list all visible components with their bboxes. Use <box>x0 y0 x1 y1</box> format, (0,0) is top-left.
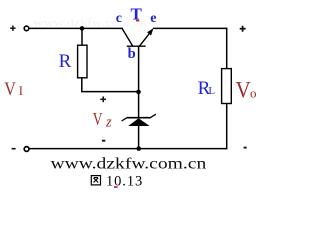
label - zener bottom <box>102 140 105 142</box>
label - input bottom <box>12 148 16 150</box>
svg-text:V: V <box>93 110 103 129</box>
node junction top (R tap) <box>80 26 85 31</box>
label - output bottom <box>244 147 247 149</box>
svg-text:L: L <box>208 85 215 97</box>
svg-text:R: R <box>59 51 72 72</box>
label + input top <box>10 26 15 31</box>
wire R bottom lead <box>82 78 139 92</box>
label VI <box>4 78 23 100</box>
wire bottom rail <box>30 148 228 150</box>
wire top rail <box>29 27 123 29</box>
node junction bottom rail <box>136 146 141 151</box>
label RL <box>198 78 216 99</box>
svg-text:b: b <box>128 46 136 62</box>
svg-text:www.dzkfw.com.cn: www.dzkfw.com.cn <box>51 155 207 173</box>
wire R top lead <box>81 28 83 45</box>
wire base vertical <box>138 46 140 117</box>
terminal input + <box>24 26 29 31</box>
red tick under 10 <box>114 186 118 188</box>
transistor T <box>122 28 153 46</box>
svg-text:V: V <box>4 78 16 100</box>
label Vz <box>93 110 112 130</box>
svg-text:e: e <box>150 11 156 26</box>
red tick under T <box>136 20 139 22</box>
svg-text:10.13: 10.13 <box>106 173 143 189</box>
svg-text:c: c <box>116 11 122 26</box>
wire zener bottom lead <box>138 126 140 149</box>
svg-text:V: V <box>236 77 251 103</box>
svg-text:z: z <box>105 114 112 130</box>
zener diode Vz <box>122 114 156 126</box>
label Vo <box>236 77 257 103</box>
svg-text:I: I <box>19 84 23 98</box>
wire emitter to right <box>153 27 228 29</box>
CJK glyph tu (figure) drawn manually <box>91 176 100 185</box>
svg-text:o: o <box>250 86 257 101</box>
terminal input - <box>24 147 29 152</box>
caption figure 10.13 <box>91 173 143 189</box>
watermark <box>33 17 147 29</box>
wire right vertical upper <box>226 28 228 69</box>
resistor R <box>78 45 87 78</box>
label + zener top <box>100 96 106 102</box>
resistor RL <box>222 69 232 104</box>
wire right vertical lower <box>226 104 228 150</box>
label + output top <box>240 26 246 32</box>
node junction base/zener <box>136 90 141 95</box>
